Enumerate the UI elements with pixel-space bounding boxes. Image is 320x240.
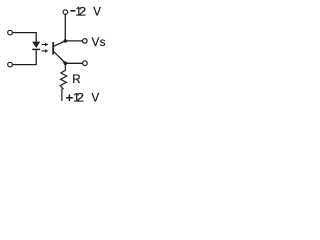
light arrow lower xyxy=(42,49,49,52)
light arrow upper xyxy=(42,43,49,46)
transistor Q1 (phototransistor) xyxy=(53,41,65,64)
svg-text:12V: 12V xyxy=(75,7,101,19)
node collector junction xyxy=(64,39,68,43)
svg-text:R: R xyxy=(72,74,80,86)
wire collector to -12V terminal xyxy=(64,14,66,41)
node input terminal top-left xyxy=(8,30,13,35)
node input terminal bottom-left xyxy=(8,62,13,67)
node emitter junction xyxy=(64,62,68,66)
label +12 V xyxy=(66,97,73,99)
wire LED cathode to bottom-left xyxy=(12,50,36,65)
wire top-left to LED anode xyxy=(12,33,36,42)
wire emitter to output terminal xyxy=(65,62,82,64)
wire collector to Vs terminal xyxy=(65,40,82,42)
diode D1 (opto LED) xyxy=(32,42,40,50)
node -12V terminal xyxy=(63,10,68,15)
svg-text:12V: 12V xyxy=(73,93,99,105)
node Vs terminal xyxy=(83,39,88,44)
svg-text:Vs: Vs xyxy=(92,37,106,49)
label -12 V minus sign xyxy=(70,10,75,12)
resistor R xyxy=(60,63,66,101)
node output terminal bottom-right xyxy=(83,61,88,66)
